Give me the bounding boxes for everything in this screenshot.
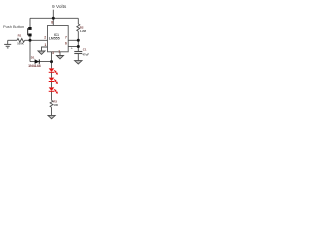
svg-text:8: 8 (51, 21, 53, 25)
svg-text:100: 100 (53, 103, 58, 107)
svg-text:R1: R1 (18, 33, 22, 37)
svg-text:1: 1 (58, 50, 60, 54)
svg-text:7: 7 (65, 35, 67, 39)
svg-text:9 Volts: 9 Volts (52, 4, 67, 10)
svg-text:Push Button: Push Button (3, 24, 24, 29)
svg-text:2: 2 (44, 35, 46, 39)
svg-text:100K: 100K (17, 41, 24, 45)
svg-text:LM555: LM555 (49, 36, 60, 40)
svg-text:1N4148: 1N4148 (28, 64, 41, 68)
svg-text:6: 6 (65, 42, 67, 46)
svg-text:3: 3 (52, 51, 54, 55)
svg-text:D1: D1 (31, 55, 35, 59)
svg-text:47uF: 47uF (83, 53, 90, 57)
svg-text:1.2M: 1.2M (80, 29, 87, 33)
svg-text:C1: C1 (83, 48, 87, 52)
svg-text:1: 1 (45, 43, 47, 47)
